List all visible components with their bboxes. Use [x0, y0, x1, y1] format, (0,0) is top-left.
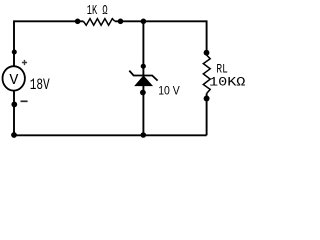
- resistor R1 1K ohm zigzag: [83, 19, 114, 26]
- zener diode D1 cathode bar with bent ends: [129, 71, 157, 81]
- svg-text:18V: 18V: [30, 76, 50, 94]
- wire top-right horizontal segment: [115, 20, 207, 22]
- junction dot bottom of RL: [204, 96, 210, 102]
- junction dot below source: [11, 102, 17, 108]
- wire zener branch vertical bottom: [142, 86, 144, 136]
- wire left vertical (bottom): [13, 91, 15, 136]
- junction dot above source: [12, 50, 17, 55]
- wire top-left horizontal segment: [14, 20, 83, 22]
- svg-text:1K Ω: 1K Ω: [87, 3, 108, 19]
- svg-text:V: V: [9, 72, 18, 89]
- zener branch bottom junction dot: [141, 132, 147, 138]
- minus sign: [21, 100, 28, 102]
- junction dot top of RL: [204, 50, 210, 56]
- zener diode D1 anode triangle: [135, 76, 153, 86]
- node: zener branch top junction: [141, 19, 147, 25]
- wire right vertical (bottom): [206, 94, 208, 136]
- junction dot bottom-left corner: [11, 132, 17, 138]
- wire zener branch vertical top: [142, 21, 144, 75]
- wire right vertical (top): [206, 20, 208, 55]
- junction dot right of R1: [118, 19, 124, 25]
- resistor RL zigzag: [203, 55, 210, 94]
- wire bottom horizontal: [14, 134, 207, 136]
- zener top junction dot: [141, 64, 146, 69]
- plus sign: [22, 60, 27, 65]
- voltage source V1 circle: [3, 66, 25, 90]
- junction dot left of R1: [75, 19, 81, 25]
- svg-text:10 V: 10 V: [158, 84, 180, 98]
- zener bottom junction dot: [140, 90, 146, 96]
- wire left vertical (top): [13, 20, 15, 66]
- svg-text:10KΩ: 10KΩ: [209, 74, 246, 89]
